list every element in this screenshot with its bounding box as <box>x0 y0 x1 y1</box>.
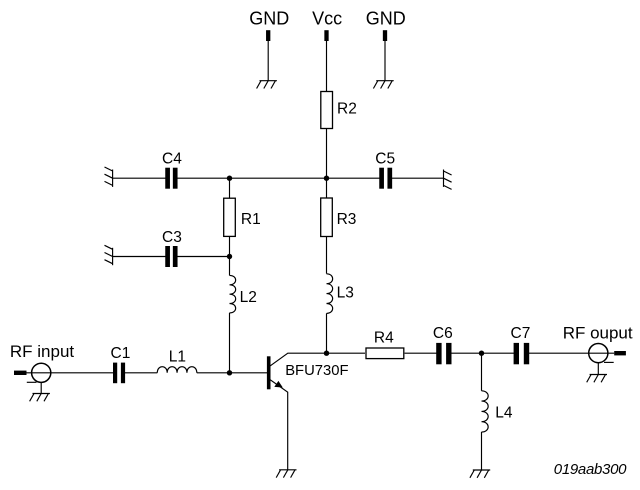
svg-text:C6: C6 <box>433 325 453 342</box>
svg-text:Vcc: Vcc <box>312 9 342 29</box>
svg-text:C1: C1 <box>111 345 131 362</box>
svg-text:019aab300: 019aab300 <box>554 461 627 478</box>
svg-text:L3: L3 <box>337 285 354 302</box>
svg-text:BFU730F: BFU730F <box>285 363 348 379</box>
svg-text:C4: C4 <box>162 150 182 167</box>
svg-text:C7: C7 <box>511 325 531 342</box>
svg-text:RF ouput: RF ouput <box>563 323 633 342</box>
svg-text:R3: R3 <box>337 211 357 228</box>
svg-text:L4: L4 <box>495 405 513 422</box>
svg-text:R2: R2 <box>337 101 357 118</box>
svg-text:RF input: RF input <box>10 342 75 361</box>
svg-text:L1: L1 <box>169 349 186 366</box>
svg-text:C5: C5 <box>375 150 395 167</box>
svg-text:GND: GND <box>249 9 289 29</box>
svg-text:R4: R4 <box>374 329 394 346</box>
svg-text:L2: L2 <box>240 289 257 306</box>
svg-text:C3: C3 <box>162 229 182 246</box>
svg-text:GND: GND <box>366 9 406 29</box>
svg-text:R1: R1 <box>241 211 261 228</box>
